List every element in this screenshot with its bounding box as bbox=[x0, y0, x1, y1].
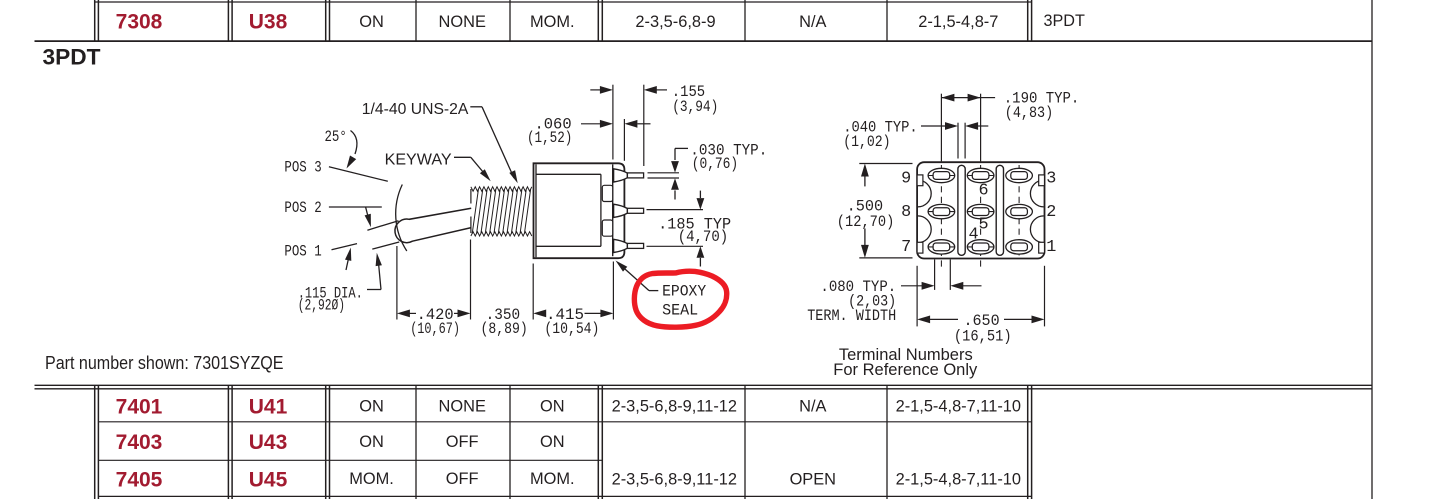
svg-text:2-1,5-4,8-7: 2-1,5-4,8-7 bbox=[918, 13, 998, 31]
body inner bottom wall bbox=[536, 245, 601, 247]
svg-text:(2,92Ø): (2,92Ø) bbox=[298, 296, 345, 314]
divider bar 2 bbox=[996, 165, 1003, 255]
table: right page frame line bbox=[1371, 0, 1373, 499]
arrow at POS1 line bbox=[346, 258, 349, 270]
svg-text:ON: ON bbox=[359, 397, 384, 415]
dim .155 bbox=[590, 89, 601, 91]
svg-text:25°: 25° bbox=[325, 128, 347, 146]
dim .500 bbox=[861, 164, 869, 177]
carrier pockets bbox=[602, 185, 612, 201]
svg-text:ON: ON bbox=[540, 433, 565, 451]
pin edge extension lines bbox=[648, 172, 680, 174]
terminal block outline bbox=[917, 162, 1044, 258]
bushing left face edges bbox=[470, 189, 472, 204]
svg-text:MOM.: MOM. bbox=[349, 470, 394, 488]
svg-text:(1,02): (1,02) bbox=[843, 133, 890, 151]
dim .060 extension line bbox=[623, 119, 625, 161]
terminal 3 pad bbox=[1006, 168, 1033, 182]
svg-text:N/A: N/A bbox=[799, 13, 826, 31]
svg-text:2-3,5-6,8-9,11-12: 2-3,5-6,8-9,11-12 bbox=[612, 397, 737, 415]
red marker circle bbox=[634, 271, 726, 327]
svg-text:(4,83): (4,83) bbox=[1005, 104, 1053, 122]
dim .040 extension lines bbox=[957, 123, 959, 159]
dim .190 extension lines bbox=[940, 94, 942, 162]
dim .650 extension lines bbox=[916, 266, 918, 327]
POS 2 position line bbox=[329, 206, 382, 208]
svg-text:2: 2 bbox=[1046, 203, 1056, 222]
svg-text:1/4-40 UNS-2A: 1/4-40 UNS-2A bbox=[362, 101, 469, 118]
epoxy seal inner line bbox=[612, 164, 614, 256]
svg-text:3PDT: 3PDT bbox=[43, 45, 101, 70]
body inner left wall bbox=[535, 164, 537, 257]
KEYWAY leader bbox=[454, 156, 471, 158]
svg-text:TERM. WIDTH: TERM. WIDTH bbox=[807, 307, 896, 325]
svg-text:ON: ON bbox=[359, 13, 384, 31]
divider bar 1 bbox=[958, 165, 965, 255]
dim .190 TYP bbox=[941, 97, 980, 99]
dim .080 extension lines bbox=[934, 260, 936, 290]
svg-text:SEAL: SEAL bbox=[662, 301, 698, 319]
bottom chained dims extension lines bbox=[396, 246, 398, 320]
dim .500 extension lines bbox=[859, 163, 912, 165]
svg-text:4: 4 bbox=[968, 226, 978, 245]
svg-text:(10,54): (10,54) bbox=[544, 320, 599, 338]
svg-text:MOM.: MOM. bbox=[530, 470, 575, 488]
svg-text:2-3,5-6,8-9: 2-3,5-6,8-9 bbox=[635, 13, 715, 31]
dim .650 bbox=[917, 316, 930, 324]
terminal 2 pad bbox=[1006, 204, 1033, 218]
contact carrier face bbox=[600, 174, 602, 246]
table: bottom table row separators bbox=[98, 421, 1031, 423]
svg-text:U38: U38 bbox=[249, 11, 288, 34]
svg-text:For Reference Only: For Reference Only bbox=[833, 361, 978, 379]
terminal pin 1 (side view) bbox=[614, 169, 628, 182]
terminal pin 3 (side view) bbox=[614, 239, 628, 252]
svg-text:(12,70): (12,70) bbox=[837, 213, 895, 231]
terminal 5 pad bbox=[967, 204, 994, 218]
lever diameter extension lines bbox=[367, 221, 398, 231]
terminal 9 pad bbox=[928, 168, 955, 182]
dim .415 bbox=[533, 310, 546, 318]
dim .185 TYP extension lines bbox=[647, 209, 704, 211]
svg-text:NONE: NONE bbox=[439, 397, 486, 415]
terminal column centerlines bbox=[940, 165, 942, 271]
svg-text:(0,76): (0,76) bbox=[692, 155, 739, 173]
terminal 4 pad bbox=[967, 240, 994, 254]
svg-text:1: 1 bbox=[1046, 238, 1056, 257]
lever swing arc bbox=[396, 185, 407, 252]
svg-text:MOM.: MOM. bbox=[530, 13, 575, 31]
svg-text:POS 3: POS 3 bbox=[284, 159, 321, 177]
terminal 1 pad bbox=[1006, 240, 1033, 254]
side relief cutouts right bbox=[1030, 180, 1043, 207]
svg-text:ON: ON bbox=[540, 397, 565, 415]
svg-text:9: 9 bbox=[901, 169, 911, 188]
terminal 8 pad bbox=[928, 204, 955, 218]
svg-text:OFF: OFF bbox=[446, 433, 479, 451]
toggle lever bbox=[395, 208, 471, 242]
svg-text:8: 8 bbox=[901, 203, 911, 222]
1/4-40 leader bbox=[470, 106, 482, 108]
svg-text:7405: 7405 bbox=[116, 468, 163, 491]
svg-text:5: 5 bbox=[979, 216, 989, 235]
25 degree leader arc and arrow bbox=[351, 131, 357, 155]
svg-text:7401: 7401 bbox=[116, 395, 163, 418]
svg-text:7308: 7308 bbox=[116, 11, 163, 34]
svg-text:OFF: OFF bbox=[446, 470, 479, 488]
svg-text:(1,52): (1,52) bbox=[527, 129, 572, 147]
svg-text:(10,67): (10,67) bbox=[410, 320, 460, 338]
svg-text:2-1,5-4,8-7,11-10: 2-1,5-4,8-7,11-10 bbox=[896, 471, 1021, 489]
table: top row separator bbox=[95, 1, 1032, 3]
svg-text:EPOXY: EPOXY bbox=[662, 282, 706, 300]
dim .155 extension lines bbox=[612, 85, 614, 160]
dim .420 bbox=[397, 310, 410, 318]
svg-text:OPEN: OPEN bbox=[790, 471, 836, 489]
side relief cutouts left bbox=[918, 180, 931, 207]
terminal 7 pad bbox=[928, 240, 955, 254]
svg-text:7403: 7403 bbox=[116, 431, 163, 454]
table: bottom table top double border bbox=[35, 384, 1373, 386]
switch body outline bbox=[534, 163, 625, 258]
svg-text:U45: U45 bbox=[249, 468, 288, 491]
bushing threads bbox=[471, 187, 532, 191]
svg-text:2-3,5-6,8-9,11-12: 2-3,5-6,8-9,11-12 bbox=[612, 471, 737, 489]
svg-text:U43: U43 bbox=[249, 431, 288, 454]
svg-text:Part number shown: 7301SYZQE: Part number shown: 7301SYZQE bbox=[45, 352, 284, 373]
table: top table bottom border bbox=[35, 40, 1373, 42]
svg-text:2-1,5-4,8-7,11-10: 2-1,5-4,8-7,11-10 bbox=[896, 397, 1021, 415]
arrow POS2 to lever bbox=[366, 207, 369, 220]
thread flank lines bbox=[472, 189, 530, 233]
svg-text:(4,70): (4,70) bbox=[678, 228, 729, 246]
keying tabs bbox=[917, 175, 923, 186]
svg-text:POS 2: POS 2 bbox=[284, 199, 321, 217]
table: bottom table vertical rules bbox=[94, 385, 96, 499]
svg-text:6: 6 bbox=[979, 181, 989, 200]
svg-text:U41: U41 bbox=[249, 395, 288, 418]
POS 3 position line bbox=[329, 167, 388, 182]
.115 DIA. leader bbox=[367, 289, 381, 291]
terminal pin 2 (side view) bbox=[614, 204, 628, 217]
terminal 6 pad bbox=[967, 168, 994, 182]
svg-text:(3,94): (3,94) bbox=[672, 98, 718, 116]
svg-text:7: 7 bbox=[901, 238, 911, 257]
svg-text:(16,51): (16,51) bbox=[954, 328, 1012, 346]
svg-text:3PDT: 3PDT bbox=[1044, 12, 1085, 30]
svg-text:NONE: NONE bbox=[439, 13, 486, 31]
epoxy seal leader bbox=[649, 290, 658, 292]
svg-text:KEYWAY: KEYWAY bbox=[385, 151, 452, 168]
svg-text:3: 3 bbox=[1046, 169, 1056, 188]
svg-text:ON: ON bbox=[359, 433, 384, 451]
POS 1 position line bbox=[332, 244, 358, 250]
body inner top wall bbox=[536, 173, 601, 175]
svg-text:(8,89): (8,89) bbox=[481, 320, 528, 338]
svg-text:POS 1: POS 1 bbox=[284, 243, 321, 261]
svg-text:N/A: N/A bbox=[799, 397, 826, 415]
table: top row vertical rules bbox=[94, 0, 96, 41]
